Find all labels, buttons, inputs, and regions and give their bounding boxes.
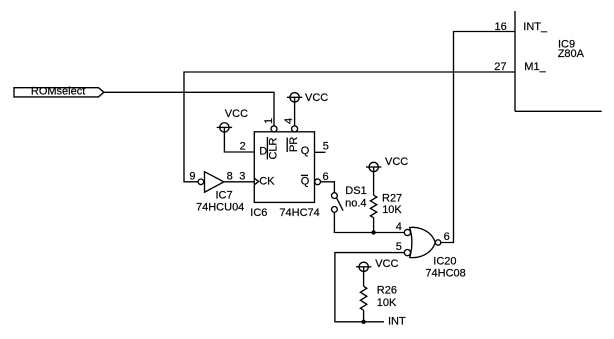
svg-text:6: 6 <box>323 171 329 183</box>
svg-text:6: 6 <box>444 231 450 243</box>
svg-text:R27: R27 <box>382 192 402 204</box>
svg-text:CK: CK <box>259 175 275 187</box>
input bubble pin 4 <box>404 229 410 235</box>
svg-text:INT: INT <box>388 316 406 328</box>
CK edge-trigger marker <box>255 178 259 184</box>
svg-text:2: 2 <box>240 141 246 153</box>
wire ROMselect net to IC6 CLR pin 1 <box>104 92 274 126</box>
svg-text:VCC: VCC <box>225 108 248 120</box>
node ROMselect input tag <box>14 86 104 98</box>
wire VCC to IC6 D pin 2 <box>224 132 254 152</box>
triangle body of IC7 <box>205 172 224 193</box>
Qbar bubble pin 6 <box>315 179 321 185</box>
flip-flop IC6 74HC74 <box>250 118 320 219</box>
wire INT net to IC20 input pin 5 <box>335 253 404 322</box>
svg-text:10K: 10K <box>382 204 402 216</box>
svg-text:1: 1 <box>263 118 275 124</box>
inverter IC7 74HCU04 <box>189 170 245 213</box>
power VCC symbol at IC6 PR input <box>287 92 328 104</box>
CLR bubble pin 1 <box>271 126 277 132</box>
svg-text:5: 5 <box>396 241 402 253</box>
svg-text:10K: 10K <box>377 297 397 309</box>
switch terminal bottom <box>332 207 338 213</box>
junction R27 bottom on pin 4 net <box>371 230 375 234</box>
wire Qbar pin 6 to switch DS1 <box>321 182 335 193</box>
processor IC9 Z80A (partial outline) <box>494 11 601 111</box>
svg-text:3: 3 <box>239 171 245 183</box>
switch DS1 no.4 <box>332 185 367 212</box>
svg-text:8: 8 <box>227 171 233 183</box>
svg-text:74HCU04: 74HCU04 <box>196 201 244 213</box>
wire M1_ net from IC9 pin 27 to IC7 input pin 9 <box>184 72 515 182</box>
svg-text:16: 16 <box>495 21 507 33</box>
svg-text:DS1: DS1 <box>345 185 366 197</box>
svg-text:5: 5 <box>323 141 329 153</box>
input bubble of IC7 <box>198 179 204 185</box>
svg-text:R26: R26 <box>377 285 397 297</box>
svg-text:IC20: IC20 <box>433 255 456 267</box>
svg-text:no.4: no.4 <box>345 198 366 210</box>
svg-text:IC7: IC7 <box>216 190 233 202</box>
svg-text:VCC: VCC <box>305 92 328 104</box>
svg-text:VCC: VCC <box>375 258 398 270</box>
wire IC20 output pin 6 to IC9 INT_ pin 16 <box>441 32 515 243</box>
power VCC symbol at IC6 D input <box>217 108 248 132</box>
wire VCC to IC6 PR pin 4 <box>294 102 296 126</box>
PR bubble pin 4 <box>292 126 298 132</box>
svg-text:Q: Q <box>301 145 310 157</box>
junction R26 bottom on INT net <box>361 320 365 324</box>
CLR overbar <box>266 137 268 160</box>
body of IC6 <box>254 132 314 203</box>
svg-text:Q: Q <box>301 175 310 187</box>
switch terminal top <box>332 193 338 199</box>
svg-text:74HC74: 74HC74 <box>279 207 319 219</box>
wire Q pin 5 stub <box>315 151 326 153</box>
IC9 left edge <box>514 11 516 111</box>
svg-text:ROMselect: ROMselect <box>31 86 85 98</box>
svg-text:INT_: INT_ <box>523 21 548 33</box>
Qbar overbar <box>301 174 308 176</box>
svg-text:9: 9 <box>189 170 195 182</box>
svg-text:27: 27 <box>494 61 506 73</box>
svg-text:74HC08: 74HC08 <box>425 268 465 280</box>
svg-text:4: 4 <box>396 221 402 233</box>
wire IC7 output pin 8 to IC6 CK pin 3 <box>224 181 254 183</box>
svg-text:D: D <box>259 146 267 158</box>
PR overbar <box>286 138 288 153</box>
svg-text:M1_: M1_ <box>524 61 546 73</box>
svg-text:PR: PR <box>288 137 300 152</box>
svg-text:4: 4 <box>283 118 295 124</box>
power VCC symbol at R27 <box>366 156 408 172</box>
AND gate IC20 74HC08 (De Morgan negative-logic form) <box>404 227 465 279</box>
IC9 bottom edge <box>515 110 602 112</box>
gate body <box>410 227 436 257</box>
svg-text:VCC: VCC <box>385 156 408 168</box>
svg-text:Z80A: Z80A <box>558 48 585 60</box>
switch lever <box>337 198 344 211</box>
svg-text:CLR: CLR <box>268 137 280 159</box>
resistor R27 10K <box>370 172 402 233</box>
wire switch to IC20 input pin 4 <box>334 212 404 232</box>
power VCC symbol at R26 <box>356 258 398 272</box>
output bubble pin 6 <box>435 240 440 245</box>
resistor R26 10K <box>360 272 397 322</box>
input bubble pin 5 <box>404 250 410 256</box>
svg-text:IC6: IC6 <box>250 207 267 219</box>
